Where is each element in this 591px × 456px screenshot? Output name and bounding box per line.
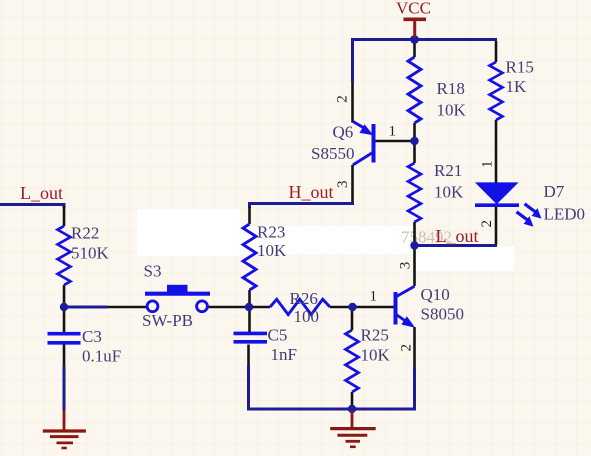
svg-text:2: 2	[479, 220, 495, 228]
svg-text:R25: R25	[361, 326, 389, 345]
svg-text:LED0: LED0	[544, 205, 586, 224]
svg-text:S3: S3	[144, 262, 162, 281]
svg-text:R21: R21	[434, 161, 462, 180]
svg-text:R18: R18	[437, 79, 465, 98]
svg-text:100: 100	[294, 307, 320, 326]
svg-text:10K: 10K	[361, 346, 391, 365]
svg-text:1: 1	[370, 289, 378, 305]
svg-text:S8050: S8050	[421, 305, 464, 324]
svg-text:3: 3	[335, 181, 351, 189]
svg-text:510K: 510K	[71, 244, 110, 263]
svg-text:C5: C5	[268, 326, 288, 345]
svg-text:10K: 10K	[437, 101, 467, 120]
svg-text:Q10: Q10	[421, 285, 450, 304]
svg-text:10K: 10K	[434, 183, 464, 202]
svg-text:L_out: L_out	[436, 226, 479, 246]
svg-text:R15: R15	[506, 58, 534, 77]
svg-text:Q6: Q6	[333, 123, 354, 142]
svg-text:S8550: S8550	[311, 144, 354, 163]
svg-text:3: 3	[398, 262, 414, 270]
svg-text:0.1uF: 0.1uF	[82, 347, 121, 366]
svg-text:2: 2	[335, 95, 351, 103]
svg-text:H_out: H_out	[289, 182, 334, 202]
svg-text:1: 1	[389, 124, 397, 140]
svg-text:R23: R23	[257, 223, 285, 242]
svg-text:1nF: 1nF	[271, 345, 297, 364]
svg-text:L_out: L_out	[20, 183, 63, 203]
svg-text:VCC: VCC	[396, 0, 431, 18]
svg-text:SW-PB: SW-PB	[142, 311, 193, 330]
svg-text:R22: R22	[71, 224, 99, 243]
svg-text:C3: C3	[82, 327, 102, 346]
svg-text:2: 2	[398, 344, 414, 352]
svg-text:10K: 10K	[257, 241, 287, 260]
svg-text:R26: R26	[290, 289, 318, 308]
svg-text:D7: D7	[544, 182, 565, 201]
svg-text:1K: 1K	[506, 77, 528, 96]
svg-text:1: 1	[480, 160, 496, 168]
